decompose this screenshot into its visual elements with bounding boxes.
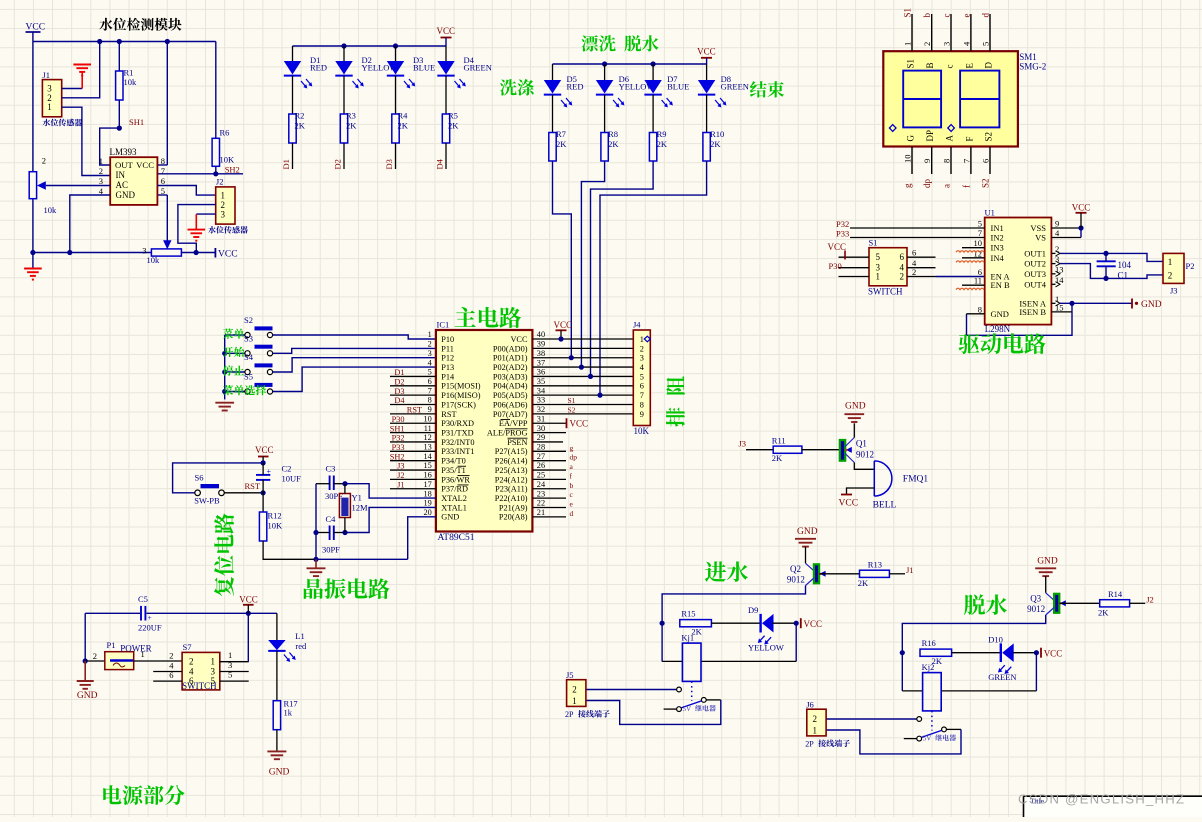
svg-text:6: 6	[640, 382, 644, 391]
svg-text:VCC: VCC	[839, 499, 859, 509]
svg-text:GND: GND	[441, 513, 459, 522]
svg-text:33: 33	[537, 396, 545, 405]
svg-text:GREEN: GREEN	[988, 672, 1016, 682]
svg-text:4: 4	[189, 667, 194, 677]
svg-text:104: 104	[1118, 260, 1132, 270]
svg-text:SH2: SH2	[390, 452, 405, 461]
svg-text:16: 16	[424, 471, 432, 480]
svg-text:R10: R10	[710, 129, 724, 139]
svg-text:5: 5	[228, 670, 232, 680]
svg-text:1: 1	[228, 650, 232, 660]
svg-text:GND: GND	[77, 691, 98, 701]
svg-text:P26(A14): P26(A14)	[495, 457, 528, 466]
svg-text:220UF: 220UF	[138, 622, 162, 632]
svg-text:P17(SCK): P17(SCK)	[441, 400, 476, 409]
svg-text:22: 22	[537, 499, 545, 508]
svg-text:36: 36	[537, 368, 545, 377]
svg-text:S2: S2	[981, 178, 991, 188]
svg-text:AC: AC	[116, 180, 129, 190]
svg-text:d: d	[570, 509, 574, 518]
svg-text:EN B: EN B	[991, 280, 1010, 290]
svg-text:1: 1	[99, 156, 103, 166]
svg-text:VCC: VCC	[239, 594, 258, 604]
svg-text:J1: J1	[42, 70, 50, 80]
svg-text:20: 20	[424, 508, 432, 517]
svg-text:2P: 2P	[805, 739, 814, 748]
svg-text:CSDN @ENGLISH_HHZ: CSDN @ENGLISH_HHZ	[1018, 792, 1184, 807]
svg-text:2K: 2K	[346, 121, 357, 131]
svg-text:P33: P33	[392, 443, 405, 452]
svg-text:G: G	[906, 135, 916, 142]
svg-text:2K: 2K	[772, 453, 783, 463]
svg-text:12: 12	[974, 248, 983, 258]
svg-text:39: 39	[537, 340, 545, 349]
svg-text:C1: C1	[1118, 271, 1129, 281]
svg-text:2K: 2K	[1098, 607, 1109, 617]
svg-text:S1: S1	[903, 8, 913, 18]
svg-text:6: 6	[912, 248, 916, 258]
svg-text:GND: GND	[269, 768, 290, 778]
svg-text:VSS: VSS	[1030, 223, 1046, 233]
svg-text:2K: 2K	[295, 121, 306, 131]
svg-text:6: 6	[169, 670, 173, 680]
svg-text:J1: J1	[397, 480, 404, 489]
svg-text:S2: S2	[568, 406, 576, 415]
svg-text:VCC: VCC	[218, 249, 238, 259]
svg-text:9: 9	[1055, 219, 1059, 229]
svg-text:VCC: VCC	[1044, 648, 1063, 658]
svg-text:VCC: VCC	[136, 160, 154, 170]
svg-text:1: 1	[812, 725, 817, 735]
svg-text:AT89C51: AT89C51	[438, 533, 475, 543]
svg-text:SW-PB: SW-PB	[194, 495, 220, 505]
svg-text:5: 5	[161, 186, 165, 196]
svg-text:23: 23	[537, 489, 545, 498]
svg-text:A: A	[945, 135, 955, 142]
svg-text:5: 5	[876, 252, 881, 262]
svg-text:R14: R14	[1108, 589, 1123, 599]
svg-text:L1: L1	[295, 631, 304, 641]
svg-text:B: B	[925, 62, 935, 68]
svg-text:10k: 10k	[124, 77, 138, 87]
svg-text:2K: 2K	[608, 139, 619, 149]
svg-text:2: 2	[922, 42, 932, 46]
svg-text:D4: D4	[394, 396, 405, 405]
svg-text:DP: DP	[925, 130, 935, 142]
svg-text:S5: S5	[244, 372, 253, 382]
svg-text:2: 2	[93, 651, 97, 661]
svg-text:VCC: VCC	[697, 47, 716, 57]
svg-text:1: 1	[211, 657, 216, 667]
svg-text:P23(A11): P23(A11)	[495, 485, 528, 494]
svg-text:P22(A10): P22(A10)	[495, 494, 528, 503]
svg-text:27: 27	[537, 452, 545, 461]
svg-text:P13: P13	[441, 363, 454, 372]
svg-text:1: 1	[141, 649, 145, 659]
svg-text:VCC: VCC	[1072, 203, 1091, 213]
svg-text:3: 3	[640, 354, 644, 363]
svg-text:21: 21	[537, 508, 545, 517]
svg-text:2: 2	[169, 651, 173, 661]
svg-text:2: 2	[1168, 270, 1173, 280]
svg-text:VCC: VCC	[255, 445, 274, 455]
svg-text:2K: 2K	[398, 121, 409, 131]
svg-text:5V: 5V	[923, 734, 932, 742]
svg-text:14: 14	[424, 452, 433, 461]
svg-text:6: 6	[981, 159, 991, 163]
svg-text:10k: 10k	[147, 255, 161, 265]
svg-text:R8: R8	[608, 129, 618, 139]
svg-text:OUT1: OUT1	[1024, 248, 1046, 258]
svg-text:P03(AD3): P03(AD3)	[493, 372, 528, 381]
svg-text:P32: P32	[392, 434, 405, 443]
svg-text:VCC: VCC	[510, 335, 528, 344]
svg-text:VCC: VCC	[437, 26, 456, 36]
svg-text:Kj1: Kj1	[681, 632, 694, 642]
svg-text:2K: 2K	[710, 139, 721, 149]
svg-text:U1: U1	[985, 208, 995, 218]
svg-text:28: 28	[537, 443, 545, 452]
svg-text:P04(AD4): P04(AD4)	[493, 382, 528, 391]
svg-text:R6: R6	[220, 127, 230, 137]
svg-text:10: 10	[974, 238, 983, 248]
svg-text:6: 6	[189, 676, 194, 686]
svg-text:P12: P12	[441, 354, 454, 363]
svg-text:P01(AD1): P01(AD1)	[493, 354, 528, 363]
svg-text:J3: J3	[739, 438, 747, 448]
svg-text:J5: J5	[566, 670, 574, 680]
svg-text:2: 2	[428, 340, 432, 349]
svg-text:13: 13	[424, 443, 432, 452]
svg-text:3: 3	[428, 349, 432, 358]
svg-text:f: f	[961, 185, 971, 188]
svg-text:2P: 2P	[565, 710, 574, 719]
svg-text:S4: S4	[244, 352, 254, 362]
svg-text:g: g	[903, 183, 913, 188]
svg-text:1: 1	[428, 330, 432, 339]
svg-text:POWER: POWER	[120, 644, 152, 654]
svg-text:R13: R13	[868, 560, 882, 570]
svg-text:c: c	[942, 14, 952, 18]
svg-text:C5: C5	[138, 594, 148, 604]
svg-text:BLUE: BLUE	[413, 62, 435, 72]
svg-text:GND: GND	[116, 190, 136, 200]
svg-text:40: 40	[537, 330, 545, 339]
svg-text:RED: RED	[310, 62, 327, 72]
svg-text:7: 7	[428, 386, 432, 395]
svg-text:D2: D2	[394, 378, 404, 387]
svg-text:P27(A15): P27(A15)	[495, 447, 528, 456]
svg-text:19: 19	[424, 499, 432, 508]
svg-text:D9: D9	[748, 605, 758, 615]
svg-text:SH1: SH1	[390, 424, 405, 433]
svg-text:P35/T1: P35/T1	[441, 466, 465, 475]
svg-text:J6: J6	[806, 700, 814, 710]
svg-text:P24(A12): P24(A12)	[495, 475, 528, 484]
svg-text:10: 10	[903, 155, 913, 164]
svg-text:IN4: IN4	[991, 253, 1005, 263]
svg-text:26: 26	[537, 461, 545, 470]
svg-text:3: 3	[99, 176, 103, 186]
svg-text:XTAL2: XTAL2	[441, 494, 467, 503]
svg-text:b: b	[570, 481, 574, 490]
svg-text:10: 10	[424, 414, 432, 423]
svg-text:D3: D3	[384, 159, 394, 169]
svg-text:11: 11	[974, 276, 982, 286]
svg-text:OUT2: OUT2	[1024, 259, 1046, 269]
svg-text:VCC: VCC	[554, 320, 573, 330]
svg-text:R1: R1	[124, 68, 134, 78]
svg-text:34: 34	[537, 386, 546, 395]
svg-text:Kj2: Kj2	[922, 662, 935, 672]
svg-text:P33: P33	[836, 229, 849, 239]
svg-text:P33/INT1: P33/INT1	[441, 447, 474, 456]
svg-text:1k: 1k	[284, 708, 293, 718]
svg-text:GREEN: GREEN	[464, 62, 492, 72]
svg-text:LM393: LM393	[110, 147, 138, 157]
svg-text:SWITCH: SWITCH	[868, 287, 903, 297]
svg-text:8: 8	[428, 396, 432, 405]
svg-text:XTAL1: XTAL1	[441, 503, 467, 512]
svg-text:P07(AD7): P07(AD7)	[493, 410, 528, 419]
svg-text:GND: GND	[1037, 556, 1058, 566]
svg-text:J2: J2	[216, 177, 224, 187]
svg-text:g: g	[570, 443, 574, 452]
svg-text:R12: R12	[268, 511, 282, 521]
svg-text:7: 7	[161, 166, 165, 176]
svg-text:2: 2	[189, 657, 194, 667]
svg-text:RED: RED	[567, 82, 584, 92]
svg-text:8: 8	[942, 159, 952, 163]
svg-text:RST: RST	[441, 410, 456, 419]
svg-text:P20(A8): P20(A8)	[499, 513, 528, 522]
svg-text:3: 3	[228, 660, 232, 670]
svg-text:6: 6	[428, 377, 432, 386]
svg-text:D3: D3	[394, 387, 404, 396]
svg-text:red: red	[295, 641, 307, 651]
svg-text:37: 37	[537, 358, 545, 367]
svg-text:S2: S2	[244, 315, 253, 325]
svg-text:15: 15	[424, 461, 432, 470]
svg-text:ALE/PROG: ALE/PROG	[487, 429, 528, 438]
svg-text:D10: D10	[988, 634, 1003, 644]
svg-text:R4: R4	[398, 111, 409, 121]
svg-text:P34/T0: P34/T0	[441, 457, 465, 466]
svg-text:S3: S3	[244, 333, 253, 343]
svg-text:VS: VS	[1035, 233, 1046, 243]
svg-text:7: 7	[978, 228, 982, 238]
svg-text:2: 2	[572, 684, 577, 694]
svg-text:S2: S2	[984, 132, 994, 142]
svg-text:IC1: IC1	[437, 320, 450, 330]
svg-text:6: 6	[161, 176, 165, 186]
svg-text:4: 4	[169, 661, 174, 671]
svg-text:YELLOW: YELLOW	[748, 642, 784, 652]
svg-text:D2: D2	[333, 159, 343, 169]
svg-text:C4: C4	[326, 514, 337, 524]
svg-text:1: 1	[876, 272, 881, 282]
svg-text:2K: 2K	[556, 139, 567, 149]
svg-text:P37/RD: P37/RD	[441, 485, 468, 494]
svg-text:2: 2	[99, 166, 103, 176]
svg-text:D: D	[984, 62, 994, 69]
svg-text:18: 18	[424, 489, 432, 498]
svg-text:VCC: VCC	[570, 419, 589, 429]
svg-text:OUT: OUT	[115, 160, 134, 170]
svg-text:2: 2	[900, 272, 905, 282]
svg-text:38: 38	[537, 349, 545, 358]
svg-text:P02(AD2): P02(AD2)	[493, 363, 528, 372]
svg-text:R3: R3	[346, 111, 356, 121]
svg-text:1: 1	[640, 335, 644, 344]
svg-text:J1: J1	[906, 565, 914, 575]
svg-text:24: 24	[537, 480, 546, 489]
svg-text:8: 8	[640, 400, 644, 409]
svg-text:2K: 2K	[858, 578, 869, 588]
svg-text:10K: 10K	[220, 155, 236, 165]
svg-text:GND: GND	[1141, 300, 1162, 310]
svg-text:P05(AD5): P05(AD5)	[493, 391, 528, 400]
svg-text:8: 8	[161, 156, 165, 166]
svg-text:P00(AD0): P00(AD0)	[493, 344, 528, 353]
svg-text:Y1: Y1	[352, 493, 362, 503]
svg-text:P25(A13): P25(A13)	[495, 466, 528, 475]
svg-text:C3: C3	[326, 464, 336, 474]
svg-text:RST: RST	[245, 481, 261, 491]
svg-text:d: d	[981, 13, 991, 18]
svg-text:P30: P30	[829, 261, 842, 271]
svg-text:R9: R9	[657, 129, 667, 139]
svg-text:9012: 9012	[856, 450, 874, 460]
svg-text:C2: C2	[282, 464, 292, 474]
svg-text:J4: J4	[633, 320, 641, 330]
svg-text:J2: J2	[397, 471, 404, 480]
svg-text:+: +	[148, 613, 152, 622]
svg-text:10UF: 10UF	[282, 474, 302, 484]
svg-text:3: 3	[211, 667, 216, 677]
svg-text:D4: D4	[435, 158, 445, 169]
svg-text:5V: 5V	[683, 705, 692, 713]
svg-text:2: 2	[812, 714, 817, 724]
svg-text:30PF: 30PF	[325, 491, 343, 501]
svg-text:IN: IN	[116, 170, 126, 180]
svg-text:5: 5	[211, 676, 216, 686]
svg-text:Q1: Q1	[856, 439, 867, 449]
svg-text:J2: J2	[1146, 595, 1154, 605]
svg-text:2K: 2K	[657, 139, 668, 149]
svg-text:OUT3: OUT3	[1024, 269, 1046, 279]
svg-text:11: 11	[424, 424, 432, 433]
svg-text:32: 32	[537, 405, 545, 414]
svg-text:P14: P14	[441, 372, 455, 381]
svg-text:P32/INT0: P32/INT0	[441, 438, 474, 447]
svg-text:P16(MISO): P16(MISO)	[441, 391, 480, 400]
svg-text:12: 12	[424, 433, 432, 442]
svg-text:R11: R11	[772, 435, 786, 445]
svg-text:SM1: SM1	[1019, 52, 1037, 62]
svg-text:J3: J3	[1170, 286, 1178, 296]
svg-text:+: +	[267, 467, 272, 476]
svg-text:P06(AD6): P06(AD6)	[493, 400, 528, 409]
svg-text:5: 5	[978, 219, 982, 229]
svg-text:P21(A9): P21(A9)	[499, 503, 528, 512]
svg-text:S1: S1	[906, 59, 916, 69]
svg-text:IN3: IN3	[991, 243, 1004, 253]
svg-text:35: 35	[537, 377, 545, 386]
svg-text:P30: P30	[392, 415, 405, 424]
svg-text:10K: 10K	[634, 426, 650, 436]
svg-text:30PF: 30PF	[322, 545, 340, 555]
svg-text:L298N: L298N	[985, 324, 1011, 334]
svg-text:c: c	[945, 65, 955, 69]
svg-text:5: 5	[981, 42, 991, 46]
svg-text:3: 3	[221, 209, 226, 219]
svg-text:Q2: Q2	[790, 564, 801, 574]
svg-text:9: 9	[640, 410, 644, 419]
svg-text:VCC: VCC	[804, 619, 823, 629]
svg-text:J3: J3	[397, 462, 404, 471]
svg-text:9: 9	[428, 405, 432, 414]
svg-text:BLUE: BLUE	[667, 82, 689, 92]
svg-text:10K: 10K	[268, 521, 284, 531]
svg-text:P10: P10	[441, 335, 454, 344]
svg-text:GREEN: GREEN	[721, 82, 749, 92]
svg-text:2: 2	[912, 267, 916, 277]
svg-text:2: 2	[221, 200, 226, 210]
svg-text:Q3: Q3	[1030, 593, 1041, 603]
svg-text:IN1: IN1	[991, 223, 1004, 233]
svg-text:6: 6	[900, 252, 905, 262]
svg-text:D1: D1	[394, 368, 404, 377]
svg-text:7: 7	[640, 391, 644, 400]
svg-text:F: F	[964, 136, 974, 141]
svg-text:S6: S6	[195, 473, 204, 483]
svg-text:9012: 9012	[787, 575, 805, 585]
svg-text:R2: R2	[295, 111, 305, 121]
svg-text:S7: S7	[183, 642, 192, 652]
svg-text:P30/RXD: P30/RXD	[441, 419, 474, 428]
svg-text:BELL: BELL	[873, 501, 897, 511]
svg-text:dp: dp	[922, 179, 932, 189]
svg-text:5: 5	[428, 368, 432, 377]
svg-text:17: 17	[424, 480, 432, 489]
svg-text:PSEN: PSEN	[507, 438, 527, 447]
svg-text:P11: P11	[441, 344, 454, 353]
svg-text:9012: 9012	[1027, 604, 1045, 614]
svg-text:P31/TXD: P31/TXD	[441, 429, 473, 438]
svg-text:8: 8	[978, 304, 982, 314]
svg-text:VCC: VCC	[828, 242, 847, 252]
svg-text:E: E	[964, 63, 974, 69]
svg-text:1: 1	[903, 42, 913, 46]
svg-text:3: 3	[942, 42, 952, 46]
svg-text:GND: GND	[991, 309, 1009, 319]
svg-text:S1: S1	[568, 396, 576, 405]
svg-text:SH2: SH2	[225, 164, 240, 174]
svg-text:S1: S1	[869, 238, 878, 248]
svg-text:e: e	[961, 14, 971, 18]
svg-text:R15: R15	[681, 608, 695, 618]
svg-text:P1: P1	[107, 640, 116, 650]
svg-text:2K: 2K	[448, 121, 459, 131]
svg-text:EA/VPP: EA/VPP	[499, 419, 528, 428]
svg-text:7: 7	[961, 159, 971, 163]
svg-text:10k: 10k	[44, 205, 58, 215]
svg-text:GND: GND	[845, 402, 866, 412]
svg-text:SH1: SH1	[129, 117, 144, 127]
svg-text:30: 30	[537, 424, 545, 433]
svg-text:P36/WR: P36/WR	[441, 475, 470, 484]
